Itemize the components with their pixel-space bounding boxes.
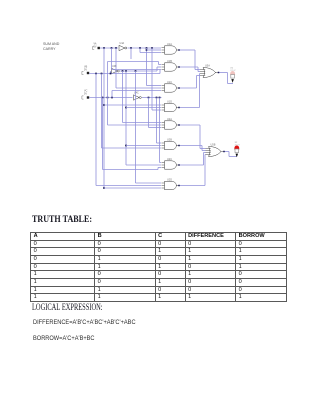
AND gate U1C bbox=[162, 81, 180, 92]
AND gate U2B bbox=[162, 138, 180, 149]
wire: feed U2D in1 bbox=[136, 182, 162, 184]
inverter U4B bbox=[112, 65, 120, 74]
wire: net B' vertical drops bbox=[123, 71, 136, 183]
wire: U5B output to probe X2 bbox=[225, 152, 238, 157]
wire: U2D out to U5B bbox=[179, 155, 206, 186]
wire: feed U1B in3 bbox=[112, 69, 162, 71]
inverter U4C bbox=[134, 92, 142, 101]
expression: borrow bbox=[33, 335, 95, 342]
AND gate U2D bbox=[162, 178, 180, 189]
svg-text:U1C: U1C bbox=[167, 81, 172, 84]
wire: U2B out to U5B bbox=[179, 146, 206, 151]
wire: input C row bbox=[89, 97, 133, 99]
svg-text:U1D: U1D bbox=[167, 100, 172, 103]
wire: feed U1C in1 bbox=[147, 85, 162, 87]
heading: TRUTH TABLE bbox=[32, 214, 92, 225]
svg-text:U2D: U2D bbox=[167, 178, 172, 181]
heading: LOGICAL EXPRESSION bbox=[32, 302, 103, 313]
svg-text:U4A: U4A bbox=[120, 42, 125, 45]
AND gate U1B bbox=[162, 60, 180, 71]
input connector B bbox=[82, 66, 89, 75]
expression: difference bbox=[33, 319, 136, 326]
output probe X1 bbox=[230, 68, 236, 83]
wire: net C' vertical drops bbox=[149, 98, 160, 163]
wire: feed U1B in1 bbox=[108, 62, 162, 65]
svg-text:5V: 5V bbox=[94, 46, 97, 49]
wire: feed U2B in2 bbox=[126, 145, 161, 147]
svg-text:U1A: U1A bbox=[167, 43, 172, 46]
svg-text:5V: 5V bbox=[84, 69, 87, 72]
output probe X2 bbox=[235, 142, 241, 157]
AND gate U1D bbox=[162, 100, 180, 111]
wire: U1D out to U5A bbox=[179, 74, 200, 108]
svg-text:U2B: U2B bbox=[167, 138, 172, 141]
wire: feed U1C in2 bbox=[116, 87, 161, 89]
wire: feed U1D in2 bbox=[126, 107, 161, 109]
input connector C bbox=[82, 90, 89, 100]
wire: input A row bbox=[100, 47, 161, 49]
wire: net A' vertical drops bbox=[131, 48, 152, 110]
input connector A bbox=[93, 43, 100, 50]
svg-text:U1B: U1B bbox=[167, 60, 172, 63]
svg-text:U5B: U5B bbox=[211, 144, 216, 147]
svg-text:U5A: U5A bbox=[205, 65, 210, 68]
wire: feed U1A in2 bbox=[147, 49, 162, 51]
svg-text:SUM AND: SUM AND bbox=[43, 42, 60, 46]
wire: U1B out to U5A bbox=[179, 67, 200, 72]
AND gate U2C bbox=[162, 158, 180, 169]
svg-text:5V: 5V bbox=[84, 93, 87, 96]
wire: feed U2C in2 bbox=[126, 164, 161, 166]
OR gate U5B bbox=[206, 144, 225, 157]
wire: C' row bbox=[142, 97, 162, 99]
wire: U2A out to U5B bbox=[179, 125, 206, 149]
wire: net B vertical drops bbox=[96, 74, 102, 186]
wire: net C vertical drops bbox=[103, 62, 108, 170]
wire: feed U2C in3 bbox=[103, 168, 162, 170]
wire: U2C out to U5B bbox=[179, 153, 206, 166]
truth table bbox=[30, 232, 287, 302]
AND gate U1A bbox=[162, 43, 180, 54]
wire: feed U2A in2 bbox=[108, 124, 162, 126]
svg-text:U2A: U2A bbox=[167, 118, 172, 121]
OR gate U5A bbox=[200, 65, 219, 78]
wire: feed U2C in1 bbox=[160, 162, 162, 164]
svg-text:U4C: U4C bbox=[134, 92, 139, 95]
wire: feed U2A in3 bbox=[149, 127, 162, 129]
inverter U4A bbox=[119, 42, 127, 51]
AND gate U2A bbox=[162, 118, 180, 129]
wire: feed U1C in3 bbox=[112, 91, 161, 98]
wire: feed U2A in1 bbox=[123, 122, 162, 124]
wire: net A vertical drops bbox=[103, 48, 116, 189]
wire: feed U2D in3 bbox=[104, 187, 161, 189]
wire: feed U1A in3 bbox=[140, 52, 161, 54]
wire: U5A output to probe X1 bbox=[219, 73, 233, 84]
svg-text:CARRY: CARRY bbox=[43, 47, 56, 51]
wire: feed U2D in2 bbox=[96, 185, 161, 187]
wire: input B row bbox=[89, 70, 160, 75]
wire: U1C out to U5A bbox=[179, 76, 200, 89]
svg-text:U2C: U2C bbox=[167, 158, 172, 161]
wire: U1A out to U5A bbox=[179, 50, 200, 70]
wire: feed U2B in3 bbox=[102, 147, 162, 149]
wire: feed U2B in1 bbox=[157, 142, 162, 144]
wire: feed U1D in1 bbox=[104, 104, 161, 106]
wire: B' row bbox=[120, 67, 161, 72]
wire: feed U1D in3 bbox=[152, 109, 161, 111]
